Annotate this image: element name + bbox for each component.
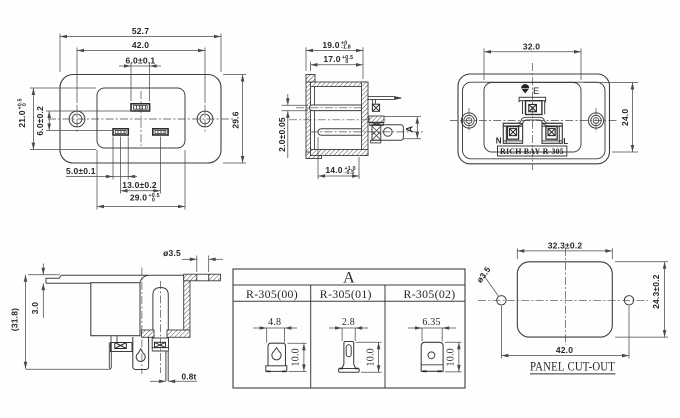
svg-text:E: E [533,86,540,97]
view 4: bracket hole edges [196,274,198,281]
view 3: line terminal box [542,123,562,143]
svg-text:13.0±0.2: 13.0±0.2 [122,180,157,190]
dimension 29.6 [242,75,244,164]
dimension 32.0 extension lines [483,49,485,81]
view 2: earth tab bracket [371,99,373,104]
view 3: rear recess outline [484,83,581,153]
dimension 32.3±0.2 extension lines [516,248,518,259]
table: header row line [233,284,465,286]
dimension 24.0 extension lines [584,82,638,84]
svg-text:RICH BAY R-305: RICH BAY R-305 [500,147,564,156]
view 3: line terminal contact [546,127,557,140]
svg-text:(31.8): (31.8) [10,308,20,331]
dimension A [416,117,418,139]
view 2: flange top block (section) [306,75,315,83]
view 1: front face outer body outline [60,75,221,164]
view 3: rear outer body outline [458,74,610,164]
dimension 42.0 extension lines [500,306,502,359]
dimension (31.8) [25,275,27,369]
panel cut-out: left mounting hole [497,296,506,305]
view 4: body block [91,283,140,336]
view 2: flange plate (section) [306,75,311,159]
dimension 17.0 +0.5/-0 [311,64,364,66]
view 4: centerline through tab [141,268,143,375]
svg-text:PANEL CUT-OUT: PANEL CUT-OUT [530,359,615,373]
dimension 6.0±0.1 extension lines [130,63,132,102]
view 4: bracket foot left (section) [142,330,155,337]
table: outer frame [233,269,465,388]
view 3: earth terminal top bar [519,97,546,100]
view 3: moulding bridge contour [503,117,563,123]
view 4: earth terminal pin 0.8t [165,351,167,381]
cell 00: terminal body [268,343,286,366]
view 4: body step corner [140,275,148,282]
view 2: body top wall (section) [311,82,369,87]
dimension 24.3±0.2 [664,262,666,337]
dimension A extension lines [385,116,422,118]
view 3: horizontal centerline [450,120,618,122]
view 2: body bottom wall (section) [311,150,369,156]
view 1: line pin slot (lower-right) [153,129,168,135]
dimension 6.0±0.2 [48,111,50,131]
cell 01: terminal slot [346,345,351,357]
dimension 14.0 +1.0/-0.5 [318,175,359,177]
dimension 42.0 [501,355,629,357]
svg-text:-1.8: -1.8 [341,45,351,51]
svg-text:14.0: 14.0 [325,165,342,175]
dimension 3.0 [42,264,44,275]
dimension 13.0±0.2 [121,190,161,192]
cell 00: teardrop hole [272,348,281,360]
view 1: right mounting hole [197,111,213,127]
dimension ø3.5 leader [484,276,498,296]
dimension 19.0 +0/-1.8 [306,50,363,52]
view 1: left mounting hole [69,111,85,127]
view 2: upper pin [310,105,362,111]
dimension 6.0±0.2 extension lines [46,110,133,112]
view 3: rear second contour [463,82,606,159]
svg-text:5.0±0.1: 5.0±0.1 [66,166,96,176]
view 2: terminal hole [384,128,393,137]
svg-text:2.0±0.05: 2.0±0.05 [277,117,287,152]
dimension 2.0±0.05 [287,94,289,105]
table: second row line [233,300,465,302]
dimension 17.0 +0.5/-0 extension lines [310,62,312,72]
dimension 13.0±0.2 extension lines [120,137,122,194]
svg-text:6.35: 6.35 [422,317,440,328]
svg-text:42.0: 42.0 [556,345,573,355]
view 2: body cavity wall [314,87,316,150]
svg-text:0: 0 [22,103,28,110]
svg-text:0.8t: 0.8t [182,373,197,382]
cell 01: dimension 10.0 [356,341,382,343]
view 3: nameplate box RICH BAY R-305 [498,146,567,156]
cell 01: dimension 2.8 [329,327,368,329]
svg-text:0: 0 [149,198,156,204]
view 3: right mounting hole [588,113,603,128]
view 2: terminal support block [369,116,384,122]
svg-text:24.0: 24.0 [620,109,630,126]
cell 02: dimension 10.0 [445,341,462,343]
view 4: panel bracket leg (section) [184,275,190,330]
view 4: line terminal tab with hole [133,337,149,370]
panel cut-out: horizontal centerline [478,299,648,301]
svg-text:10.0: 10.0 [446,348,457,366]
dimension 14.0 +1.0/-0.5 extension lines [317,137,319,179]
view 1: front face inner recess outline [97,88,185,148]
dimension 21.0 +0.5/-0 [32,88,34,150]
svg-text:19.0: 19.0 [322,40,339,50]
view 3: earth terminal walls [522,101,524,115]
dimension 52.7 extension lines [59,34,61,73]
dimension 29.0 +0.5/-0 extension lines [96,150,98,210]
cell 01: terminal base [339,369,360,373]
dimension 5.0±0.1 extension lines [112,137,114,180]
view 3: vertical centerline [532,63,534,170]
svg-text:4.8: 4.8 [268,317,281,328]
dimension 5.0±0.1 [66,176,137,178]
view 3: neutral terminal contact [507,127,518,140]
cell 00: dimension 4.8 [253,327,297,329]
panel cut-out: right mounting hole [624,296,633,305]
dimension 42.0 [77,50,205,52]
view 3: earth symbol [524,84,526,87]
dimension 2.0±0.05 extension lines [282,104,309,106]
dimension 29.6 extension lines [223,74,246,76]
view 4: bracket foot right (section) [167,330,190,337]
dimension 24.0 [632,83,634,153]
view 3: earth terminal box [526,101,542,115]
dimension 21.0 extension lines [30,87,96,89]
table: column divider 1 [310,285,312,388]
dimension 29.0 +0.5/-0 [97,206,185,208]
cell 02: dimension 6.35 [408,327,456,329]
view 3: neutral terminal box [503,123,522,143]
dimension 6.0±0.1 [119,65,161,67]
svg-text:52.7: 52.7 [132,26,149,36]
svg-text:N: N [496,137,502,146]
panel cut-out: opening outline [517,262,612,337]
svg-text:6.0±0.2: 6.0±0.2 [35,106,45,136]
svg-text:17.0: 17.0 [323,54,340,64]
svg-text:32.0: 32.0 [523,41,540,51]
view 2: lower pin centerline [310,131,424,133]
cell 00: dimension 10.0 [288,342,307,344]
svg-text:R-305(01): R-305(01) [320,289,372,301]
cell 01: terminal body [342,342,356,369]
view 4: neutral terminal receptacle [110,336,112,343]
svg-text:A: A [404,125,414,132]
view 2: body right wall (section) [362,82,369,156]
view 4: earth pin (capsule) [153,288,168,338]
view 4: body top edge [46,275,184,283]
cell 02: terminal hole [428,352,435,359]
view 2: terminal foot [371,140,381,143]
svg-text:29.0: 29.0 [130,193,147,203]
view 3: left mounting hole [461,113,476,128]
svg-text:10.0: 10.0 [365,348,376,366]
svg-text:6.0±0.1: 6.0±0.1 [126,56,156,66]
view 1: vertical centerline [140,91,142,146]
dimension 32.0 [484,51,581,53]
view 2: flange bottom foot (section) [306,152,322,159]
svg-text:0: 0 [342,59,349,65]
panel cut-out: vertical centerline [564,248,566,345]
view 4: earth terminal receptacle [152,338,168,348]
svg-text:2.8: 2.8 [342,317,355,328]
dimension 0.8t [150,380,166,382]
svg-text:R-305(02): R-305(02) [404,289,456,301]
dimension 32.3±0.2 [517,250,612,252]
svg-text:10.0: 10.0 [291,348,302,366]
dimension (31.8) extension line [26,368,111,370]
view 4: panel bracket top bar (section) [184,274,221,281]
dimension 42.0 extension lines [76,48,78,104]
dimension ø3.5 (bracket hole) [182,258,197,260]
view 1: neutral pin slot (lower-left) [113,129,128,135]
svg-text:3.0: 3.0 [30,302,40,314]
svg-text:-0.5: -0.5 [345,170,355,176]
dimension 24.3±0.2 extension lines [615,261,668,263]
view 2: terminal crimp block [370,122,383,125]
svg-text:21.0: 21.0 [17,110,27,127]
view 2: main axis centerline [289,119,386,121]
dimension ø3.5 extension lines [196,256,198,273]
view 2: quick-connect terminal (side) [372,125,403,141]
svg-text:ø3.5: ø3.5 [163,248,181,258]
view 1: earth pin slot (top) [131,104,150,111]
svg-text:R-305(00): R-305(00) [246,289,298,301]
view 4: centerline through earth pin [159,281,161,373]
view 3: earth terminal contact [529,105,537,112]
svg-text:A: A [343,269,355,286]
dimension 19.0 +0/-1.8 extension lines [305,47,307,71]
view 2: earth tab pin (right) [368,96,395,98]
svg-text:24.3±0.2: 24.3±0.2 [651,274,661,309]
svg-text:42.0: 42.0 [132,40,149,50]
view 1: horizontal centerline [48,118,235,120]
view 2: lower pin [318,129,362,136]
cell 02: terminal body [421,342,443,371]
svg-text:29.6: 29.6 [231,111,241,128]
dimension 52.7 [60,36,221,38]
svg-text:L: L [563,137,568,146]
table: column divider 2 [384,285,386,388]
view 4: neutral terminal pin [109,343,111,370]
cell 00: terminal base [266,366,287,372]
svg-text:32.3±0.2: 32.3±0.2 [548,240,583,250]
